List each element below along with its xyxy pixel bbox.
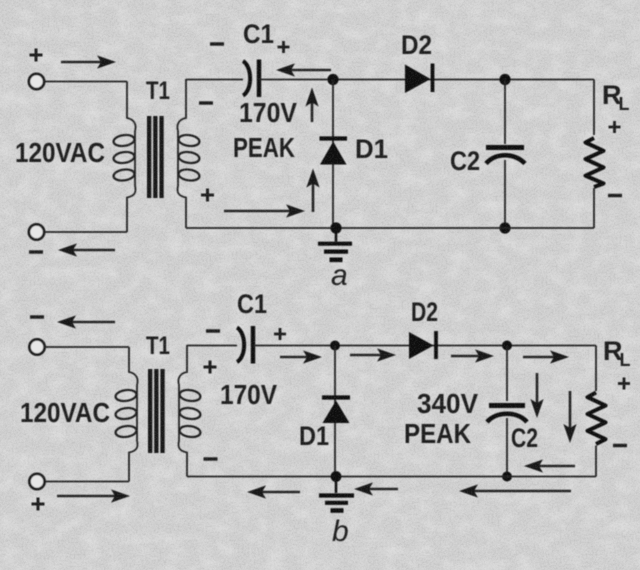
current arrow left (below bottom rail right, b) [473, 490, 571, 493]
node junction C1/D1/D2 (b) [330, 341, 340, 351]
wire C2 branch top (a) [504, 80, 506, 145]
current arrow left (above top rail, a) [290, 69, 331, 72]
wire C2 branch bottom (a) [504, 160, 506, 228]
capacitor C1 straight plate (b) [251, 326, 255, 364]
label - (secondary bottom, b) [204, 457, 218, 460]
current arrow up (above D1, a) [311, 102, 314, 123]
current arrow right (top rail seg3, b) [523, 356, 555, 359]
current arrow down (RL branch, b) [569, 391, 572, 429]
wire bottom terminal to T1 primary (a) [45, 231, 128, 233]
node junction C1/D1/D2 (a) [327, 74, 338, 85]
current arrow up (below D1, a) [312, 183, 315, 213]
transformer T1 primary winding (a) [113, 82, 136, 233]
label + (C1 right, a) [278, 41, 290, 53]
transformer T1 secondary winding (a) [177, 79, 200, 228]
label - (secondary top, a) [199, 101, 213, 104]
transformer T1 secondary winding (b) [178, 345, 201, 477]
wire bottom rail (b) [187, 476, 596, 478]
label - (AC input bottom, a) [29, 250, 43, 253]
diode D2 (a) [405, 64, 433, 94]
current arrow right (top rail seg1, b) [350, 354, 382, 357]
label + (secondary bottom, a) [201, 189, 214, 202]
label + (AC input top, a) [30, 49, 43, 62]
wire D1 branch vertical (a) [332, 80, 334, 229]
current arrow right (bottom rail inner, a) [224, 210, 291, 213]
wire bottom terminal to T1 primary (b) [45, 481, 129, 483]
node junction ground (a) [330, 222, 341, 233]
label RL (b) [603, 336, 631, 370]
wire C2 branch bottom (b) [506, 418, 508, 477]
current arrow down (C2 charge, b) [536, 373, 539, 404]
current arrow left (top input, b) [71, 321, 115, 324]
label - (RL bottom, a) [608, 194, 622, 197]
capacitor C1 curved plate (a) [243, 61, 250, 96]
resistor RL (a) [586, 138, 604, 187]
current arrow right (top input, a) [61, 61, 102, 64]
wire right rail top (b) [595, 346, 597, 392]
wire right rail bottom (a) [593, 188, 595, 228]
current arrow left (bottom input, a) [72, 249, 115, 252]
ground symbol (a) [318, 228, 352, 260]
current arrow left (below bottom rail left, b) [261, 491, 300, 494]
label - (C1 left, b) [206, 329, 220, 332]
label RL (a) [602, 80, 630, 114]
terminal top (b) [29, 339, 44, 354]
label + (RL top, a) [609, 121, 621, 133]
diode D1 (b) [322, 398, 350, 424]
label - (AC input top, b) [30, 315, 44, 318]
wire bottom rail (a) [186, 227, 594, 229]
node junction D2/C2 (b) [502, 341, 512, 351]
current arrow left (at ground, b) [368, 488, 398, 491]
current arrow right (bottom input, b) [57, 495, 116, 498]
wire top rail left segment (b) [187, 345, 237, 347]
current arrow left (under C2, b) [538, 465, 575, 468]
wire right rail top (a) [593, 80, 595, 136]
capacitor C2 straight plate (a) [486, 145, 524, 150]
terminal bottom (b) [29, 474, 44, 489]
capacitor C2 curved plate (b) [487, 414, 527, 422]
capacitor C1 straight plate (a) [257, 60, 261, 98]
transformer T1 primary winding (b) [115, 347, 138, 482]
label + (secondary top, b) [204, 361, 217, 374]
label + (C1 right, b) [274, 328, 286, 340]
diode D2 (b) [409, 331, 436, 359]
capacitor C2 straight plate (b) [489, 403, 525, 408]
wire C2 branch top (b) [506, 346, 508, 402]
label + (AC input bottom, b) [32, 498, 45, 511]
resistor RL (b) [588, 393, 606, 445]
label + (RL top, b) [618, 378, 630, 390]
transformer T1 core (b) [148, 369, 165, 453]
label - (C1 left, a) [210, 42, 224, 45]
terminal bottom (a) [29, 224, 44, 239]
wire top terminal to T1 primary (a) [45, 81, 128, 83]
node junction C2/bottom rail (b) [502, 472, 512, 482]
wire D1 branch vertical (b) [334, 346, 336, 477]
node junction ground (b) [331, 471, 342, 482]
wire right rail bottom (b) [595, 446, 597, 477]
ground symbol (b) [319, 477, 354, 511]
wire top rail right segment (b) [253, 345, 596, 347]
current arrow right (top rail seg2, b) [451, 355, 480, 358]
terminal top (a) [29, 74, 44, 89]
label - (RL bottom, b) [613, 444, 627, 447]
wire top rail right segment (a) [259, 79, 594, 81]
capacitor C2 curved plate (a) [486, 155, 525, 163]
wire top rail left segment (a) [186, 79, 243, 81]
capacitor C1 curved plate (b) [237, 328, 244, 363]
node junction C2/bottom rail (a) [499, 222, 510, 233]
wire top terminal to T1 primary (b) [45, 346, 129, 348]
diode D1 (a) [320, 139, 348, 165]
transformer T1 core (a) [147, 116, 164, 198]
node junction D2/C2 (a) [499, 74, 510, 85]
current arrow right (after C1, b) [280, 356, 308, 359]
